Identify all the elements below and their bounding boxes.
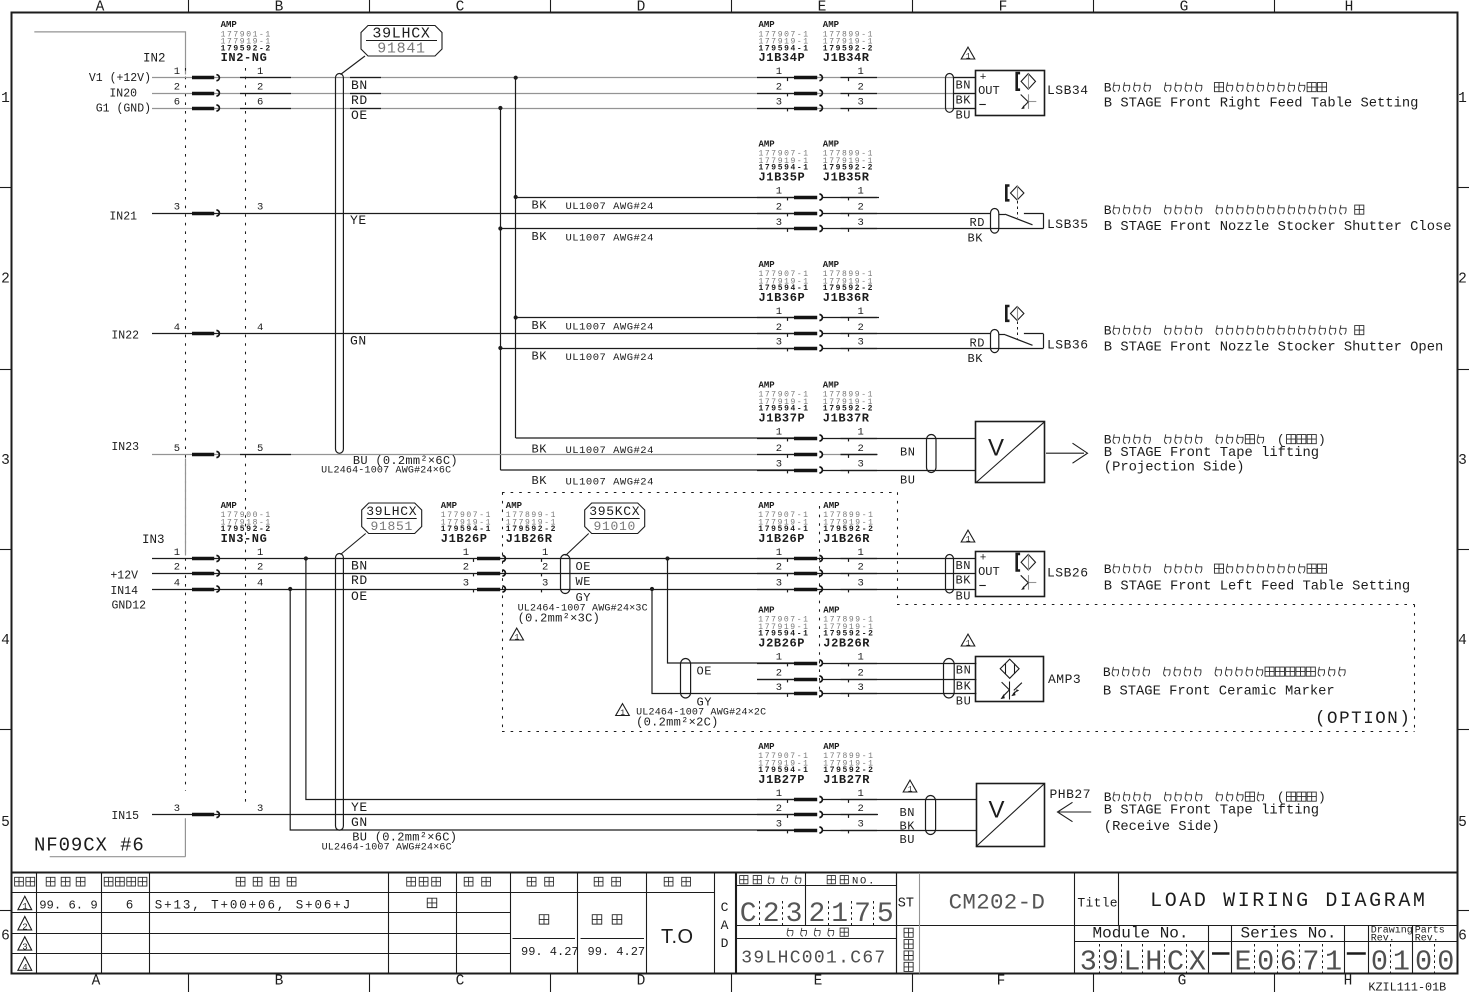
svg-text:2: 2 bbox=[776, 322, 782, 334]
svg-text:BK: BK bbox=[532, 230, 548, 244]
svg-text:3: 3 bbox=[858, 217, 864, 229]
svg-text:91851: 91851 bbox=[370, 519, 413, 534]
svg-text:J1B34R: J1B34R bbox=[823, 51, 870, 65]
svg-text:NF09CX #6: NF09CX #6 bbox=[34, 834, 145, 856]
switch contact bbox=[991, 209, 1044, 234]
svg-text:4: 4 bbox=[174, 577, 180, 589]
harness bracket IN3 bbox=[185, 459, 187, 556]
svg-text:9: 9 bbox=[1102, 946, 1119, 979]
svg-text:J1B35R: J1B35R bbox=[823, 170, 870, 184]
svg-text:3: 3 bbox=[858, 682, 864, 694]
svg-text:GND12: GND12 bbox=[111, 600, 146, 613]
module number hyphen 1 bbox=[1212, 952, 1230, 955]
wire J1B36 pin1 bbox=[516, 317, 794, 319]
wire YE drop to J1B27 pin1 bbox=[306, 559, 794, 800]
option boundary dashed box bbox=[502, 492, 1415, 731]
svg-text:J1B35P: J1B35P bbox=[759, 170, 806, 184]
contact pin 3 bbox=[757, 228, 794, 230]
zone ticks right bbox=[1457, 187, 1469, 189]
svg-text:1: 1 bbox=[776, 651, 782, 663]
wire GND vertical distribution bbox=[500, 108, 502, 470]
svg-text:Series No.: Series No. bbox=[1240, 924, 1336, 942]
svg-text:99. 4.27: 99. 4.27 bbox=[521, 945, 579, 959]
svg-text:BN: BN bbox=[900, 806, 915, 820]
svg-text:A: A bbox=[92, 974, 101, 990]
svg-text:3: 3 bbox=[858, 458, 864, 470]
contact pin 2 bbox=[757, 93, 794, 95]
header file name bbox=[787, 928, 793, 936]
svg-text:BU: BU bbox=[900, 473, 915, 487]
wire J2B26R pin1 to AMP3 bbox=[822, 663, 976, 665]
sensor receiver icon bbox=[1021, 575, 1037, 590]
svg-text:1: 1 bbox=[908, 785, 913, 794]
svg-text:IN3: IN3 bbox=[142, 533, 165, 547]
cable sheath oval main harness 1 bbox=[336, 74, 344, 454]
svg-text:3: 3 bbox=[858, 96, 864, 108]
svg-text:E: E bbox=[818, 0, 827, 16]
svg-text:1: 1 bbox=[463, 547, 469, 559]
svg-text:1: 1 bbox=[831, 899, 848, 930]
svg-text:Title: Title bbox=[1077, 895, 1118, 910]
contact pin 3 bbox=[757, 470, 794, 472]
svg-text:RD: RD bbox=[351, 573, 368, 588]
svg-text:1: 1 bbox=[858, 185, 864, 197]
wire J1B37 pin1 from +12V vertical bbox=[516, 437, 794, 439]
connector label J2B26P bbox=[758, 605, 809, 650]
junction AMP3 GY tap bbox=[650, 587, 654, 591]
junction +12V branch bbox=[514, 76, 518, 80]
svg-text:3: 3 bbox=[776, 217, 782, 229]
contact pin 1 bbox=[757, 663, 794, 665]
svg-text:1: 1 bbox=[776, 185, 782, 197]
connector label J1B26R right bbox=[823, 501, 874, 546]
wire J1B27R pin1 to V box bbox=[822, 799, 976, 801]
signal arrow receive bbox=[1058, 802, 1092, 821]
svg-text:1: 1 bbox=[776, 66, 782, 78]
svg-text:S+13, T+00+06, S+06+J: S+13, T+00+06, S+06+J bbox=[155, 898, 352, 912]
svg-text:+12V: +12V bbox=[110, 570, 138, 583]
revision marker triangle 1 bbox=[18, 896, 32, 909]
svg-text:J1B36R: J1B36R bbox=[823, 291, 870, 305]
header construction number vertical bbox=[904, 928, 913, 971]
wire J1B35R pin3 to switch bbox=[822, 228, 1044, 230]
wire stub J1B35R pin1 bbox=[822, 197, 879, 199]
sensor emitter icon bbox=[1017, 554, 1036, 571]
contact pin 2 bbox=[757, 573, 794, 575]
wire IN15 bbox=[152, 814, 794, 816]
svg-text:1: 1 bbox=[858, 306, 864, 318]
svg-text:BK: BK bbox=[968, 352, 984, 366]
cable sheath oval J1B37 bbox=[927, 435, 937, 473]
contact pin 2 bbox=[757, 333, 794, 335]
svg-text:B: B bbox=[275, 0, 284, 16]
document code C23 2175 bbox=[740, 899, 894, 930]
svg-text:BK: BK bbox=[900, 820, 916, 834]
title block top line bbox=[12, 872, 1458, 874]
sensor emitter icon bbox=[1017, 73, 1036, 90]
cable tag 395KCX/91010 bbox=[566, 503, 645, 556]
wire J1B36R pin2 to switch bbox=[822, 333, 991, 335]
svg-text:2: 2 bbox=[858, 322, 864, 334]
svg-text:C: C bbox=[456, 974, 465, 990]
svg-text:IN2-NG: IN2-NG bbox=[221, 51, 268, 65]
svg-text:BN: BN bbox=[956, 664, 972, 678]
svg-text:2: 2 bbox=[463, 561, 469, 573]
svg-text:OUT: OUT bbox=[978, 84, 1000, 98]
svg-text:5: 5 bbox=[877, 899, 894, 930]
svg-text:V1 (+12V): V1 (+12V) bbox=[89, 72, 151, 85]
wire J1B35R pin2 to switch bbox=[822, 213, 991, 215]
svg-text:1: 1 bbox=[966, 52, 971, 61]
svg-text:6: 6 bbox=[126, 898, 134, 912]
svg-text:(Projection Side): (Projection Side) bbox=[1104, 460, 1245, 476]
svg-text:UL1007 AWG#24: UL1007 AWG#24 bbox=[566, 352, 654, 364]
wire black overdraw segments row1 bbox=[240, 77, 291, 79]
svg-text:J1B27R: J1B27R bbox=[823, 773, 870, 787]
junction AMP3 OE tap bbox=[665, 556, 669, 560]
wire J1B36R pin3 to switch bbox=[822, 348, 1044, 350]
svg-text:BN: BN bbox=[351, 78, 368, 93]
svg-text:AMP: AMP bbox=[221, 20, 238, 30]
contact pin 1 bbox=[757, 438, 794, 440]
svg-text:ST: ST bbox=[898, 896, 914, 911]
contact pin 2 bbox=[757, 679, 794, 681]
svg-text:B STAGE Front Nozzle Stocker S: B STAGE Front Nozzle Stocker Shutter Ope… bbox=[1104, 339, 1443, 355]
svg-text:4: 4 bbox=[257, 577, 263, 589]
cable tag 39LHCX/91841 bbox=[341, 26, 443, 75]
contact pin 1 bbox=[192, 557, 214, 561]
svg-text:3: 3 bbox=[1458, 453, 1467, 469]
svg-text:WE: WE bbox=[576, 575, 592, 589]
svg-text:PHB27: PHB27 bbox=[1050, 787, 1092, 802]
svg-text:AMP: AMP bbox=[823, 605, 840, 615]
contact pin 2 bbox=[473, 573, 475, 576]
cable sheath oval AMP3 bbox=[944, 659, 955, 699]
connector label J1B34P bbox=[759, 20, 810, 65]
svg-text:G1 (GND): G1 (GND) bbox=[96, 103, 151, 116]
svg-text:BU: BU bbox=[956, 590, 972, 604]
svg-text:3: 3 bbox=[463, 577, 469, 589]
svg-text:OE: OE bbox=[351, 108, 368, 123]
wire IN3 pin1 bbox=[152, 558, 975, 560]
svg-text:BN: BN bbox=[351, 559, 368, 574]
svg-text:AMP: AMP bbox=[506, 501, 523, 511]
contact pin 2 bbox=[192, 572, 214, 576]
svg-text:BN: BN bbox=[900, 446, 915, 460]
connector label J1B36R bbox=[823, 260, 874, 305]
svg-text:AMP: AMP bbox=[758, 605, 775, 615]
svg-text:39LHC001.C67: 39LHC001.C67 bbox=[741, 948, 886, 968]
sensor head icon bbox=[1006, 306, 1024, 339]
svg-text:91841: 91841 bbox=[377, 41, 426, 58]
svg-text:2: 2 bbox=[858, 667, 864, 679]
svg-text:BK: BK bbox=[532, 199, 548, 213]
wire J1B27R pin3 to V box bbox=[822, 830, 976, 832]
svg-text:2: 2 bbox=[776, 803, 782, 815]
svg-text:GN: GN bbox=[350, 334, 367, 349]
svg-text:0: 0 bbox=[1437, 946, 1454, 979]
wire black overdraw IN23 bbox=[240, 454, 291, 456]
svg-text:B STAGE Front Nozzle Stocker S: B STAGE Front Nozzle Stocker Shutter Clo… bbox=[1104, 219, 1452, 235]
header kanri NO. bbox=[827, 876, 835, 884]
svg-text:BK: BK bbox=[956, 574, 972, 588]
svg-text:1: 1 bbox=[858, 547, 864, 559]
revision marker triangle 4 bbox=[18, 957, 32, 970]
svg-text:(0.2mm²×2C): (0.2mm²×2C) bbox=[636, 716, 719, 730]
svg-text:2: 2 bbox=[174, 561, 180, 573]
svg-text:2: 2 bbox=[858, 81, 864, 93]
svg-text:3: 3 bbox=[858, 336, 864, 348]
svg-text:C: C bbox=[456, 0, 465, 16]
svg-text:1: 1 bbox=[776, 547, 782, 559]
svg-text:2: 2 bbox=[858, 803, 864, 815]
revision mark triangle 1 bbox=[903, 780, 917, 792]
svg-text:1: 1 bbox=[858, 788, 864, 800]
contact pin 4 bbox=[192, 332, 214, 336]
svg-text:IN22: IN22 bbox=[111, 330, 139, 343]
svg-text:J1B37R: J1B37R bbox=[823, 411, 870, 425]
svg-text:91010: 91010 bbox=[593, 519, 636, 534]
svg-text:H: H bbox=[1345, 0, 1354, 16]
wire stub J1B37R pin2 bbox=[822, 454, 878, 456]
connector label J1B35P bbox=[759, 139, 810, 184]
svg-text:J1B26P: J1B26P bbox=[758, 532, 805, 546]
svg-text:1: 1 bbox=[174, 547, 180, 559]
svg-text:IN15: IN15 bbox=[111, 810, 139, 823]
contact pin 1 bbox=[757, 558, 794, 560]
svg-text:C: C bbox=[721, 900, 729, 915]
svg-text:BK: BK bbox=[968, 231, 984, 245]
contact pin 4 bbox=[192, 588, 214, 592]
svg-text:2: 2 bbox=[1, 272, 10, 288]
wire IN3 pin2 +12V bbox=[152, 573, 975, 575]
revision table headers bbox=[15, 877, 691, 886]
connector label J1B36P bbox=[759, 260, 810, 305]
svg-text:BK: BK bbox=[956, 680, 972, 694]
svg-text:RD: RD bbox=[970, 337, 985, 351]
svg-text:7: 7 bbox=[854, 899, 871, 930]
svg-text:E: E bbox=[814, 974, 823, 990]
revision mark triangle 1 bbox=[510, 628, 524, 640]
checker name bbox=[592, 915, 601, 924]
junction GND branch bbox=[498, 106, 502, 110]
wire J1B35 pin3 bbox=[500, 228, 794, 230]
svg-text:2: 2 bbox=[174, 81, 180, 93]
svg-text:B STAGE Front Tape lifting: B STAGE Front Tape lifting bbox=[1104, 803, 1319, 819]
svg-text:Rev.: Rev. bbox=[1371, 933, 1395, 944]
svg-text:AMP: AMP bbox=[759, 260, 776, 270]
svg-text:39LHCX: 39LHCX bbox=[366, 504, 417, 519]
svg-text:X: X bbox=[1189, 946, 1206, 979]
connector label IN3-NG bbox=[221, 501, 272, 546]
connector label IN2-NG bbox=[221, 20, 272, 65]
svg-text:2: 2 bbox=[776, 201, 782, 213]
svg-text:B: B bbox=[275, 974, 284, 990]
contact pin 2 bbox=[757, 454, 794, 456]
contact pin 1 bbox=[757, 77, 794, 79]
svg-text:Rev.: Rev. bbox=[1415, 933, 1439, 944]
junction J1B27 pin1 tap bbox=[304, 556, 308, 560]
wire IN20 row2 bbox=[152, 93, 975, 95]
svg-text:AMP: AMP bbox=[823, 742, 840, 752]
svg-text:1: 1 bbox=[542, 547, 548, 559]
svg-text:F: F bbox=[999, 0, 1008, 16]
svg-text:L: L bbox=[1123, 946, 1140, 979]
contact pin 5 bbox=[192, 453, 214, 457]
header bukacode bbox=[740, 876, 748, 884]
revision marker triangle 3 bbox=[18, 937, 32, 950]
svg-text:OE: OE bbox=[351, 589, 368, 604]
svg-text:AMP: AMP bbox=[758, 742, 775, 752]
svg-text:UL1007 AWG#24: UL1007 AWG#24 bbox=[566, 445, 654, 457]
svg-text:395KCX: 395KCX bbox=[589, 504, 640, 519]
svg-text:A: A bbox=[96, 0, 105, 16]
svg-text:1: 1 bbox=[858, 66, 864, 78]
svg-text:7: 7 bbox=[1302, 946, 1319, 979]
svg-text:UL1007 AWG#24: UL1007 AWG#24 bbox=[566, 232, 654, 244]
svg-text:V: V bbox=[988, 435, 1004, 462]
svg-text:KZIL111-01B: KZIL111-01B bbox=[1368, 980, 1446, 992]
connector boundary dashed line right bbox=[245, 68, 247, 806]
connector label J2B26R bbox=[823, 605, 874, 650]
svg-text:UL2464-1007 AWG#24×6C: UL2464-1007 AWG#24×6C bbox=[321, 466, 451, 477]
module number hyphen 2 bbox=[1347, 952, 1366, 955]
revision marker triangle 2 bbox=[18, 917, 32, 930]
svg-text:1: 1 bbox=[1325, 946, 1342, 979]
svg-text:AMP: AMP bbox=[823, 139, 840, 149]
wire IN22 GN bbox=[152, 333, 794, 335]
wire G1 GND row3 bbox=[152, 108, 975, 110]
revision row 1 author bbox=[427, 898, 436, 907]
svg-text:C: C bbox=[1167, 946, 1184, 979]
svg-text:UL1007 AWG#24: UL1007 AWG#24 bbox=[566, 476, 654, 488]
svg-text:AMP3: AMP3 bbox=[1048, 672, 1081, 687]
svg-text:J2B26P: J2B26P bbox=[758, 636, 805, 650]
svg-text:YE: YE bbox=[350, 213, 367, 228]
wire V1 +12V row1 bbox=[152, 77, 975, 79]
revision mark triangle 1 bbox=[961, 530, 975, 542]
svg-text:LSB26: LSB26 bbox=[1047, 566, 1089, 581]
wire J1B37R pin3 to V box bbox=[822, 470, 976, 472]
connector label J1B37P bbox=[759, 380, 810, 425]
svg-text:(OPTION): (OPTION) bbox=[1315, 709, 1411, 729]
svg-text:1: 1 bbox=[966, 639, 971, 648]
harness bracket NF09CX bbox=[50, 818, 186, 857]
svg-text:D: D bbox=[637, 0, 646, 16]
svg-text:AMP: AMP bbox=[759, 139, 776, 149]
svg-text:J1B34P: J1B34P bbox=[759, 51, 806, 65]
svg-text:V: V bbox=[989, 796, 1005, 823]
svg-text:J1B26P: J1B26P bbox=[441, 532, 488, 546]
svg-text:3: 3 bbox=[858, 818, 864, 830]
junction J1B36 pin3 branch bbox=[498, 346, 502, 350]
switch contact bbox=[991, 330, 1044, 353]
svg-text:2: 2 bbox=[542, 561, 548, 573]
svg-text:AMP: AMP bbox=[758, 501, 775, 511]
connector label J1B37R bbox=[823, 380, 874, 425]
svg-text:J2B26R: J2B26R bbox=[823, 636, 870, 650]
revision mark triangle 1 bbox=[961, 634, 975, 646]
contact pin 1 bbox=[192, 76, 214, 80]
wire J1B37R pin1 to V box bbox=[822, 438, 976, 440]
contact pin 3 bbox=[757, 693, 794, 695]
svg-text:2: 2 bbox=[858, 201, 864, 213]
svg-text:4: 4 bbox=[22, 963, 27, 973]
svg-text:OE: OE bbox=[576, 560, 592, 574]
connector label J1B26R left bbox=[506, 501, 557, 546]
svg-text:0: 0 bbox=[1371, 946, 1388, 979]
svg-text:AMP: AMP bbox=[823, 20, 840, 30]
sensor amplifier box bbox=[976, 552, 1045, 597]
svg-text:G: G bbox=[1180, 0, 1189, 16]
svg-text:IN2: IN2 bbox=[143, 52, 166, 66]
revision mark triangle 1 bbox=[961, 47, 975, 59]
connector label J1B27P bbox=[758, 742, 809, 787]
svg-text:LSB34: LSB34 bbox=[1047, 83, 1089, 98]
wire IN3 pin4 IN14 bbox=[152, 589, 975, 591]
svg-text:1: 1 bbox=[22, 902, 27, 912]
amplifier box V bbox=[976, 784, 1045, 847]
svg-text:5: 5 bbox=[1458, 815, 1467, 831]
svg-text:AMP: AMP bbox=[441, 501, 458, 511]
svg-text:1: 1 bbox=[620, 709, 625, 718]
svg-text:5: 5 bbox=[174, 443, 180, 455]
svg-text:BK: BK bbox=[532, 474, 548, 488]
svg-text:OUT: OUT bbox=[978, 565, 1000, 579]
svg-text:BU: BU bbox=[900, 833, 915, 847]
zone ticks left bbox=[0, 187, 12, 189]
svg-text:2: 2 bbox=[776, 667, 782, 679]
svg-text:LSB36: LSB36 bbox=[1047, 338, 1089, 353]
svg-text:6: 6 bbox=[174, 96, 180, 108]
title block code section lines bbox=[736, 873, 1458, 974]
svg-text:AMP: AMP bbox=[759, 20, 776, 30]
connector label J1B26P right bbox=[758, 501, 809, 546]
svg-text:H: H bbox=[1145, 946, 1162, 979]
svg-text:3: 3 bbox=[858, 577, 864, 589]
svg-text:J1B37P: J1B37P bbox=[759, 411, 806, 425]
svg-text:2: 2 bbox=[858, 443, 864, 455]
wire J1B35 pin1 bbox=[516, 197, 794, 199]
svg-text:J1B36P: J1B36P bbox=[759, 291, 806, 305]
wire J2B26R pin2 to AMP3 bbox=[822, 679, 976, 681]
svg-text:GN: GN bbox=[351, 815, 368, 830]
svg-text:(Receive Side): (Receive Side) bbox=[1104, 819, 1220, 835]
svg-text:RD: RD bbox=[351, 93, 368, 108]
svg-text:1: 1 bbox=[174, 66, 180, 78]
contact pin 3 bbox=[473, 589, 475, 592]
wire J1B36 pin3 bbox=[500, 348, 794, 350]
svg-text:J1B27P: J1B27P bbox=[758, 773, 805, 787]
svg-text:): ) bbox=[1318, 790, 1326, 805]
connector label J1B35R bbox=[823, 139, 874, 184]
svg-text:BU: BU bbox=[956, 109, 972, 123]
svg-text:3: 3 bbox=[1080, 946, 1097, 979]
zone ticks bottom bbox=[188, 974, 190, 992]
svg-text:2: 2 bbox=[763, 899, 780, 930]
svg-text:2: 2 bbox=[22, 922, 27, 932]
svg-text:LSB35: LSB35 bbox=[1047, 217, 1089, 232]
svg-text:T.O: T.O bbox=[661, 926, 694, 948]
svg-text:H: H bbox=[1344, 974, 1353, 990]
svg-text:BN: BN bbox=[956, 559, 972, 573]
svg-text:(0.2mm²×3C): (0.2mm²×3C) bbox=[518, 612, 601, 626]
svg-text:2: 2 bbox=[257, 81, 263, 93]
svg-text:F: F bbox=[997, 974, 1006, 990]
svg-text:AMP: AMP bbox=[823, 501, 840, 511]
svg-text:6: 6 bbox=[1280, 946, 1297, 979]
svg-text:J1B26R: J1B26R bbox=[823, 532, 870, 546]
